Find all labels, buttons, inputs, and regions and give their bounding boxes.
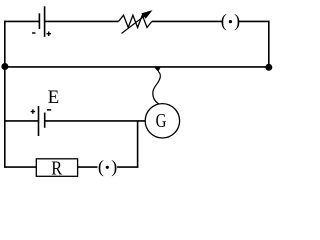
label plus of B1 <box>47 32 52 37</box>
svg-text:R: R <box>51 157 63 179</box>
wire R-box to ammeter A2 <box>78 166 98 168</box>
svg-text:(: ( <box>98 156 104 177</box>
ammeter A2 dot <box>106 166 109 169</box>
wire E-branch left <box>5 120 39 122</box>
node A junction dot left <box>1 63 8 70</box>
wiper squiggle wire <box>153 71 161 104</box>
rheostat arrowhead <box>141 10 152 19</box>
battery B1 short plate (negative) <box>38 13 40 29</box>
node B junction dot right <box>265 64 272 71</box>
label minus of B1 <box>32 32 35 34</box>
resistor R box <box>36 159 77 177</box>
svg-text:): ) <box>234 11 240 32</box>
galvanometer G circle <box>145 104 179 138</box>
wire right vertical <box>268 21 270 67</box>
wire rheostat to ammeter A1 <box>152 20 222 22</box>
wire top-left horizontal <box>4 20 39 22</box>
wire slide middle horizontal <box>4 66 269 68</box>
ammeter A1 dot <box>229 20 232 23</box>
wire bottom-left horizontal <box>4 166 36 168</box>
cell E long plate (positive) <box>38 106 40 136</box>
wire battery to rheostat <box>45 20 119 22</box>
wire mid vertical <box>137 121 139 168</box>
svg-text:G: G <box>156 109 167 132</box>
svg-text:(: ( <box>221 11 227 32</box>
label plus of E <box>31 109 35 114</box>
rheostat zigzag <box>119 15 152 27</box>
rheostat arrow shaft <box>122 14 147 33</box>
svg-text:): ) <box>111 156 117 177</box>
cell E short plate (negative) <box>44 113 46 128</box>
wiper arrowhead <box>154 67 161 72</box>
label minus of E <box>47 109 51 111</box>
wire ammeter A1 to top-right corner <box>239 20 270 22</box>
wire left vertical <box>4 21 6 168</box>
wire E-branch right to galvanometer <box>45 120 146 122</box>
wire ammeter A2 to mid vertical <box>117 166 138 168</box>
battery B1 long plate (positive) <box>44 6 46 37</box>
svg-text:E: E <box>48 87 60 108</box>
